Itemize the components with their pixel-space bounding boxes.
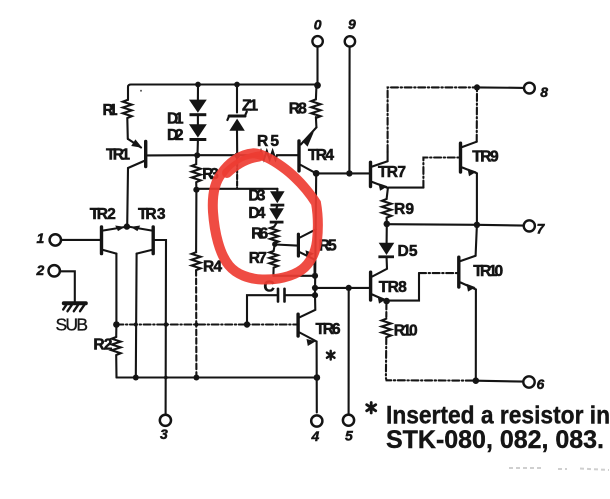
node drive rail crossings <box>134 322 199 327</box>
label TR10 <box>473 263 503 280</box>
wire bias node to R5 <box>197 154 259 156</box>
svg-text:3: 3 <box>160 426 168 442</box>
label TR7 <box>378 164 406 181</box>
node TR8 base branch junction <box>312 285 318 291</box>
svg-text:8: 8 <box>540 84 548 100</box>
node capacitor right junction <box>312 292 318 298</box>
label Z1 <box>242 98 258 115</box>
wire Z1 column down to D3 feed <box>236 155 238 188</box>
label R6 <box>251 226 268 243</box>
wire D2 to bias node <box>196 141 198 156</box>
note line 2 <box>386 426 604 454</box>
wire to terminal 8 <box>477 86 524 89</box>
wire to terminal 6 <box>476 380 523 383</box>
svg-text:Z1: Z1 <box>242 98 258 115</box>
wire capacitor left <box>247 295 277 324</box>
svg-text:7: 7 <box>537 221 546 237</box>
node TR10 emitter terminal 6 <box>473 377 480 384</box>
node TR2 collector / R2 / drive rail <box>113 321 120 328</box>
svg-text:TR9: TR9 <box>472 149 499 166</box>
wire R4 bottom dashed to bottom rail <box>195 270 197 377</box>
svg-text:2: 2 <box>36 262 45 278</box>
wire TR9 collector up dash-dot <box>476 87 478 141</box>
resistor R8 <box>311 87 320 127</box>
label terminal 5 <box>345 427 353 443</box>
transistor TR3 <box>151 227 154 254</box>
svg-text:9: 9 <box>348 16 356 32</box>
svg-text:0: 0 <box>314 17 322 33</box>
node R4 bottom rail <box>164 375 199 381</box>
resistor R1 <box>123 100 132 139</box>
wire terminal 9 to TR7 base line <box>348 47 350 173</box>
svg-text:TR 3: TR 3 <box>138 206 166 223</box>
label terminal 4 <box>311 428 320 444</box>
resistor R5 (horizontal) <box>260 151 298 159</box>
note line 1 <box>386 401 610 429</box>
node terminal 5 branch <box>346 285 352 291</box>
diode D1 <box>189 100 207 117</box>
svg-text:R 5: R 5 <box>257 133 279 150</box>
wire TR9 emitter down <box>476 173 478 225</box>
transistor TR9 <box>459 143 462 172</box>
node top rail / terminal 0 junction <box>314 82 321 89</box>
label D5 <box>398 243 418 260</box>
wire TR9 base branch <box>389 187 424 189</box>
node TR4 emitter / terminal 9 node <box>313 170 353 177</box>
label terminal 1 <box>37 230 45 246</box>
wire TR1 base to bias node <box>148 154 197 156</box>
diode D2 <box>189 124 207 141</box>
wire Z1 bottom through bias node <box>236 131 238 155</box>
svg-text:6: 6 <box>537 376 545 392</box>
node TR2/TR3 emitters <box>124 223 130 229</box>
ground SUB <box>64 301 86 305</box>
diode D4 <box>269 208 284 223</box>
svg-text:STK-080, 082, 083.: STK-080, 082, 083. <box>386 426 604 454</box>
transistor TR5 <box>297 234 300 256</box>
svg-text:4: 4 <box>311 428 320 444</box>
label TR6 <box>316 321 341 338</box>
svg-text:TR10: TR10 <box>473 263 503 280</box>
label D4 <box>248 205 265 222</box>
transistor TR10 <box>457 257 460 287</box>
wire TR1 collector down <box>126 168 129 226</box>
resistor R4 <box>192 252 201 270</box>
wire main vertical TR4 emitter down <box>315 173 316 295</box>
wire R10 bottom dash-dot to terminal 6 row <box>386 337 476 380</box>
svg-text:R1: R1 <box>103 102 118 119</box>
transistor TR6 <box>296 314 299 336</box>
terminal 7 <box>524 220 535 231</box>
node Z1 bias junction <box>234 153 240 159</box>
resistor R10 <box>382 319 391 338</box>
svg-text:1: 1 <box>37 230 45 246</box>
node D1 top rail <box>195 82 201 88</box>
node capacitor branch on drive rail <box>244 321 250 327</box>
transistor TR7 <box>369 162 372 186</box>
wire TR2 collector down <box>115 254 117 325</box>
scan noise bottom right <box>509 468 609 470</box>
label TR5 shown as R5 <box>319 238 337 255</box>
label terminal 7 <box>537 221 546 237</box>
svg-text:D2: D2 <box>167 127 184 144</box>
svg-text:D1: D1 <box>167 111 184 128</box>
terminal 0 <box>312 36 322 46</box>
svg-text:D3: D3 <box>248 188 265 205</box>
svg-text:R6: R6 <box>251 226 268 243</box>
node bias node at D2/R3 <box>194 152 200 158</box>
label R3 <box>202 166 219 183</box>
diode D5 <box>386 224 388 243</box>
svg-text:TR 2: TR 2 <box>90 206 116 223</box>
terminal 2 <box>49 265 60 276</box>
label R7 <box>249 250 267 267</box>
wire D5 to TR8 collector <box>372 258 387 276</box>
noise speck <box>140 90 142 92</box>
label D2 <box>167 127 184 144</box>
label SUB <box>56 315 89 335</box>
label terminal 8 <box>540 84 548 100</box>
resistor R9 <box>382 199 391 224</box>
diode D3 <box>270 191 285 206</box>
terminal 5 <box>343 415 354 426</box>
label D3 <box>248 188 265 205</box>
transistor TR1 <box>144 142 147 167</box>
resistor R2 <box>112 337 121 378</box>
wire top supply rail <box>128 85 318 101</box>
zener Z1 <box>229 114 245 117</box>
wire TR3 base to terminal 3 <box>155 240 166 414</box>
transistor TR8 <box>369 272 372 300</box>
wire drive rail (dash-dot) TR2 collector to TR6 base <box>116 323 296 325</box>
svg-text:R8: R8 <box>289 101 307 118</box>
terminal 4 <box>311 415 322 426</box>
svg-text:D4: D4 <box>248 205 265 222</box>
label R1 <box>103 102 118 119</box>
wire bottom rail <box>117 376 318 378</box>
node R3 bottom <box>193 187 199 193</box>
label TR2 <box>90 206 116 223</box>
node TR5 base tap <box>272 242 277 247</box>
svg-text:TR6: TR6 <box>316 321 341 338</box>
svg-text:TR8: TR8 <box>379 279 407 296</box>
wire R10 top (dashed) <box>385 305 387 319</box>
node TR8 emitter <box>383 298 390 305</box>
terminal 1 <box>50 234 61 245</box>
node TR5 emitter junction <box>312 273 318 279</box>
terminal 6 <box>523 376 534 387</box>
wire terminal 0 stub <box>316 47 318 85</box>
node terminal 8 junction <box>474 84 480 90</box>
label C <box>264 279 275 296</box>
resistor R6 <box>270 227 278 245</box>
label TR9 <box>472 149 499 166</box>
wire D3 to D4 <box>275 206 278 208</box>
wire Z1 top <box>236 85 238 113</box>
label R2 <box>93 337 112 354</box>
wire D1 top <box>197 85 199 100</box>
svg-text:R2: R2 <box>93 337 112 354</box>
terminal 9 <box>345 36 355 46</box>
label R4 <box>203 259 222 276</box>
label TR8 <box>379 279 407 296</box>
wire TR4 emitter to TR7 base <box>316 172 369 174</box>
wire TR7 emitter to R9 <box>387 188 388 199</box>
wire D3 top stub <box>276 189 278 191</box>
label terminal 6 <box>537 376 545 392</box>
wire capacitor right <box>286 294 315 296</box>
svg-text:D5: D5 <box>398 243 418 260</box>
terminal 3 <box>160 415 171 426</box>
capacitor C <box>278 289 285 302</box>
label terminal 2 <box>36 262 45 278</box>
wire terminal 5 stub <box>348 288 350 414</box>
svg-text:R9: R9 <box>394 201 414 218</box>
svg-text:5: 5 <box>345 427 353 443</box>
node Z1 top rail <box>234 82 240 88</box>
wire TR7 collector up (dash-dot) <box>387 152 389 161</box>
svg-text:TR4: TR4 <box>308 147 334 164</box>
label R10 <box>394 323 418 340</box>
label R 5 <box>257 133 279 150</box>
wire R4 top <box>195 190 197 253</box>
svg-text:R4: R4 <box>203 259 222 276</box>
svg-text:R10: R10 <box>394 323 418 340</box>
wire TR10 collector up <box>476 225 477 256</box>
wire D4 to R6 <box>274 223 276 227</box>
label TR1 <box>106 147 130 164</box>
wire R2 top <box>115 325 117 338</box>
asterisk near TR6 <box>327 351 335 360</box>
wire TR8 emitter to TR10 base <box>387 273 419 301</box>
wire D1 to D2 <box>197 116 199 124</box>
label TR3 <box>138 206 166 223</box>
wire terminal 7 row <box>387 224 524 225</box>
wire R7 bottom to TR5 emitter node <box>273 275 314 277</box>
label terminal 0 <box>314 17 322 33</box>
resistor R3 <box>192 155 201 189</box>
wire diff pair common node up <box>126 225 128 227</box>
svg-text:R7: R7 <box>249 250 267 267</box>
wire R7 top <box>274 244 275 251</box>
node TR3 collector at bottom rail <box>133 375 139 381</box>
svg-text:TR1: TR1 <box>106 147 130 164</box>
terminal 8 <box>524 83 535 94</box>
node TR9/TR10 column terminal 7 <box>474 222 480 228</box>
note asterisk <box>367 403 376 414</box>
wire TR3 collector down <box>135 254 138 378</box>
node TR6 emitter bottom rail <box>314 374 321 381</box>
node R9 bottom <box>384 221 391 228</box>
label terminal 9 <box>348 16 356 32</box>
label D1 <box>167 111 184 128</box>
red highlight circle <box>213 153 318 279</box>
wire terminal 2 to SUB ground <box>60 271 75 302</box>
transistor TR4 <box>297 141 300 171</box>
wire TR8 base branch <box>315 287 369 289</box>
label TR4 <box>308 147 334 164</box>
wire R3 bottom to D3 top <box>196 188 277 190</box>
label R8 <box>289 101 307 118</box>
svg-text:SUB: SUB <box>56 315 89 335</box>
label R9 <box>394 201 414 218</box>
wire TR10 emitter down <box>475 289 477 380</box>
transistor TR2 <box>100 227 103 254</box>
label terminal 3 <box>160 426 168 442</box>
svg-text:TR7: TR7 <box>378 164 406 181</box>
resistor R7 <box>269 251 277 276</box>
wire terminal 1 to TR2 base <box>61 239 100 241</box>
